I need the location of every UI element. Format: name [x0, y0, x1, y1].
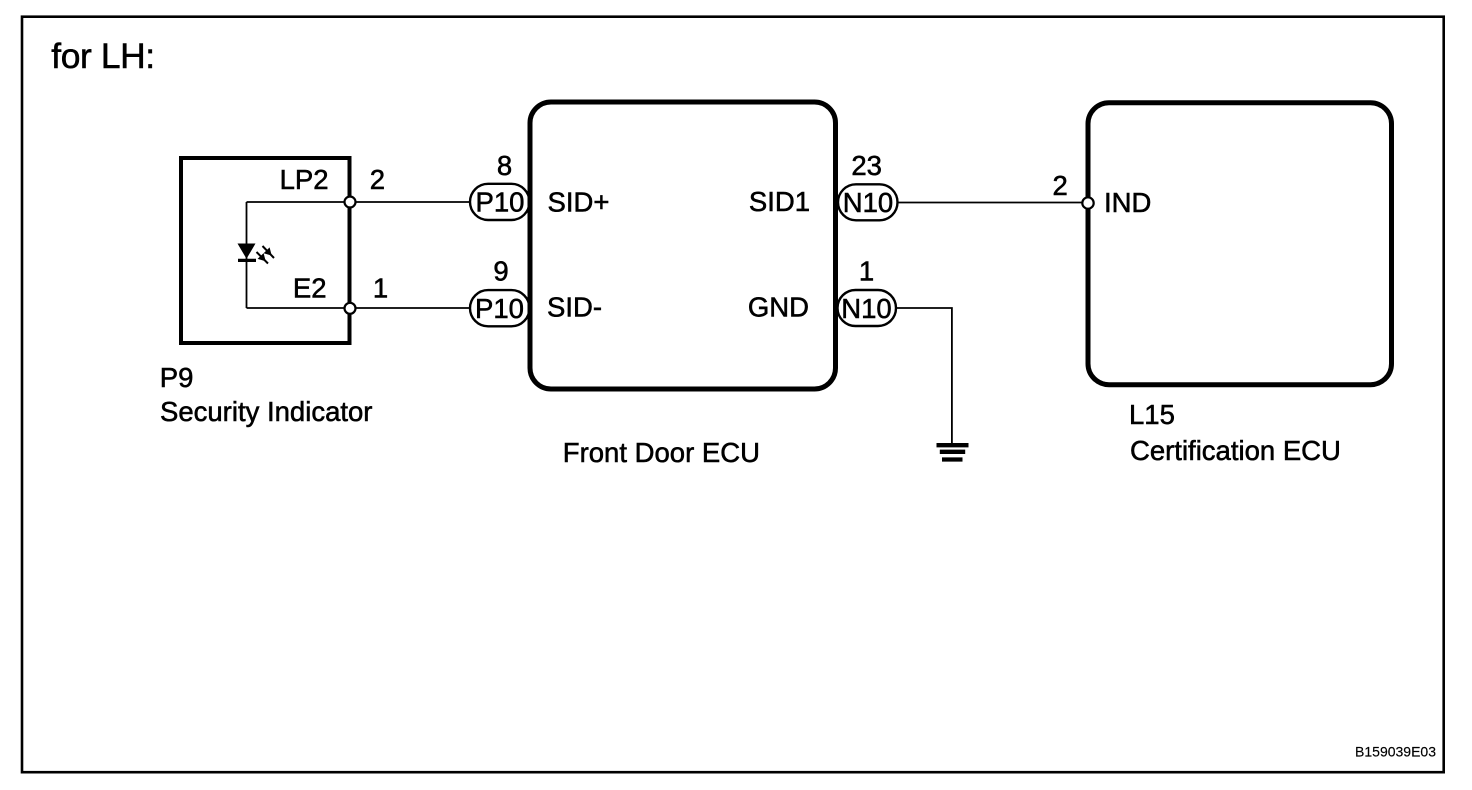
svg-text:SID+: SID+: [548, 187, 610, 218]
svg-text:SID1: SID1: [749, 186, 810, 217]
svg-text:P10: P10: [475, 293, 524, 324]
svg-text:for LH:: for LH:: [51, 36, 154, 76]
svg-text:L15: L15: [1129, 399, 1175, 430]
svg-text:1: 1: [373, 273, 388, 304]
svg-text:B159039E03: B159039E03: [1355, 744, 1436, 760]
svg-text:N10: N10: [843, 187, 893, 218]
svg-text:23: 23: [851, 150, 882, 181]
svg-text:GND: GND: [748, 292, 809, 323]
svg-text:8: 8: [497, 150, 512, 181]
svg-text:2: 2: [1053, 170, 1068, 201]
svg-text:2: 2: [370, 164, 385, 195]
svg-text:1: 1: [859, 256, 874, 287]
svg-text:Front Door ECU: Front Door ECU: [563, 437, 760, 468]
svg-text:E2: E2: [293, 273, 327, 304]
svg-text:Security Indicator: Security Indicator: [160, 396, 372, 427]
svg-text:9: 9: [493, 256, 508, 287]
svg-text:N10: N10: [841, 293, 891, 324]
svg-text:IND: IND: [1104, 187, 1151, 218]
svg-text:Certification ECU: Certification ECU: [1130, 435, 1341, 466]
svg-text:LP2: LP2: [280, 164, 329, 195]
svg-text:SID-: SID-: [547, 292, 602, 323]
svg-text:P10: P10: [476, 186, 525, 217]
svg-text:P9: P9: [160, 362, 194, 393]
